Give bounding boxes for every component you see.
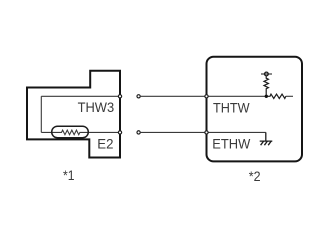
svg-text:ETHW: ETHW xyxy=(212,136,251,152)
svg-text:THTW: THTW xyxy=(213,99,250,115)
svg-text:*1: *1 xyxy=(63,167,75,183)
svg-text:THW3: THW3 xyxy=(78,99,115,115)
svg-text:*2: *2 xyxy=(249,168,261,184)
svg-text:E2: E2 xyxy=(97,136,113,152)
